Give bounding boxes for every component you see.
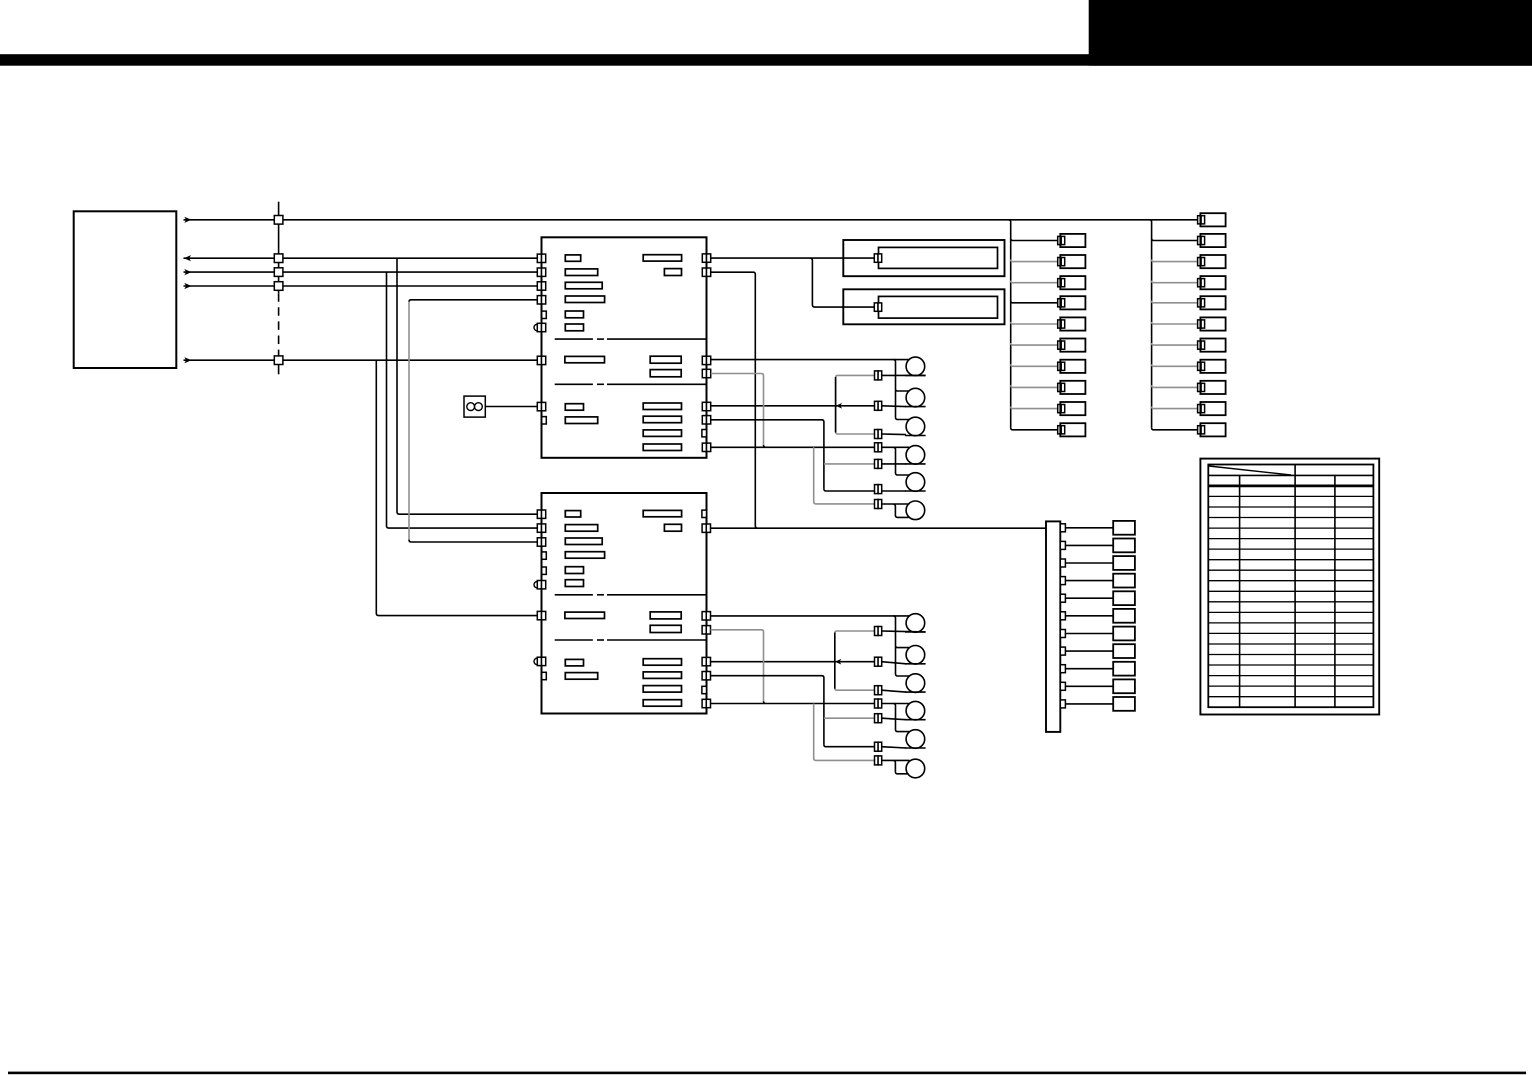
wire drop to SP12 feed (gray) (814, 704, 875, 761)
wire U2 to SP7 top (711, 615, 910, 617)
speaker SP5 base line (905, 490, 926, 492)
column B connector row 5 (1198, 320, 1205, 328)
column B box row 7 (1200, 360, 1225, 373)
bus A branch wire row 5 (1011, 322, 1058, 324)
column A connector row 6 (1058, 341, 1065, 349)
column A box row 5 (1060, 317, 1085, 330)
U2 left pin at y=542.0 (537, 538, 545, 546)
bus B branch wire row 1 (1152, 238, 1199, 240)
speaker SP12 (906, 759, 925, 778)
terminal box row 2 (1113, 539, 1135, 553)
column A box row 7 (1060, 360, 1085, 373)
bus B branch wire row 3 (1152, 281, 1199, 283)
bus B branch wire row 7 (1152, 364, 1199, 366)
U1 right inner pin (702, 430, 707, 437)
wire U2 gray drop to SP10 feed (711, 630, 764, 702)
column B connector row 8 (1198, 383, 1205, 391)
wire CN1 pin 4 to box (1065, 580, 1113, 582)
CN1 pin 5 (1060, 594, 1065, 602)
connector to speaker SP10 (875, 714, 882, 723)
wire U1 gray drop to SP4 feed (711, 374, 764, 446)
bus A branch wire row 4 (1011, 301, 1058, 303)
wire IC2 pin3 link (horizontal) (409, 540, 537, 542)
wire branch to SP10 base (gray) (824, 717, 875, 719)
U1 left pin at y=327.5 (537, 323, 545, 331)
wire antenna box to U1 (485, 406, 537, 408)
wire W3 branch to IC2 pin2 (387, 272, 538, 528)
column B connector row 3 (1198, 279, 1205, 287)
harness boundary line (dashed middle) (278, 293, 280, 350)
column B box row 2 (1200, 255, 1225, 268)
IC block U2 outline (542, 493, 707, 714)
parts table header thick line (1208, 484, 1373, 487)
wire V1 vertical black part (835, 377, 837, 433)
column B connector row 0 (1198, 216, 1205, 224)
wire CN1 pin 2 to box (1065, 544, 1113, 546)
U1 right pin at y=373.5 (702, 369, 710, 377)
U1 right pin at y=272.2 (702, 268, 710, 276)
wire V2 vertical black part (834, 633, 836, 689)
speaker SP6 (906, 501, 925, 520)
IC block U1 section divider 1 (555, 338, 706, 340)
wire U1 to D1 (711, 257, 875, 259)
speaker SP3 base line (905, 435, 926, 437)
column B connector row 2 (1198, 258, 1205, 266)
U2 left pin at y=615.6 (537, 611, 545, 619)
U2 right pin at y=615.8 (702, 612, 710, 620)
speaker SP2 (906, 388, 925, 407)
U1 right pin at y=258.1 (702, 254, 710, 262)
column A connector row 1 (1058, 236, 1065, 244)
wire IC1-IC2 link (gray vertical) (408, 302, 410, 541)
wire drop to SP6 feed (gray) (814, 447, 875, 504)
column B box row 9 (1200, 402, 1225, 415)
CN1 pin 8 (1060, 647, 1065, 655)
column B connector row 6 (1198, 341, 1205, 349)
speaker SP7 (906, 614, 925, 633)
IC block U1 outline (542, 237, 707, 457)
column B box row 6 (1200, 339, 1225, 352)
column A box row 1 (1060, 234, 1085, 247)
bus A branch wire row 9 (1011, 407, 1058, 409)
wire SP9 conn to base (882, 690, 906, 692)
speaker SP2 base line (905, 406, 926, 408)
wire SP3 conn to base (882, 433, 906, 436)
wire U1 to SP2 base (711, 405, 875, 407)
wire W5 branch to IC2 mid pin (376, 360, 537, 615)
wire SP5 conn to base (882, 490, 906, 492)
connector to speaker SP12 (875, 756, 882, 765)
column A connector row 10 (1058, 426, 1065, 434)
U1 left pin at y=360.4 (537, 356, 545, 364)
parts table column line 1 (1239, 475, 1241, 707)
connector on SP10 feed (875, 699, 882, 708)
speaker SP9 (906, 674, 925, 693)
wire W3 (184, 271, 538, 273)
column B connector row 10 (1198, 426, 1205, 434)
CN1 pin 10 (1060, 682, 1065, 690)
bus B branch wire row 10 (1152, 428, 1199, 430)
parts table outer frame (1200, 459, 1379, 715)
bus A branch wire row 3 (1011, 281, 1058, 283)
column A box row 2 (1060, 255, 1085, 268)
terminal box row 4 (1113, 574, 1135, 588)
arrow on wire W2 (184, 255, 191, 261)
U2 right pin at y=528.2 (702, 524, 710, 532)
terminal box row 9 (1113, 662, 1135, 676)
column B connector row 7 (1198, 362, 1205, 370)
column B box row 4 (1200, 296, 1225, 309)
column B box row 5 (1200, 317, 1225, 330)
wire SP7 conn to base (882, 630, 926, 633)
column B connector row 9 (1198, 405, 1205, 413)
feed bus SP10-SP11 (893, 704, 909, 732)
CN1 pin 6 (1060, 612, 1065, 620)
U2 right pin at y=629.8 (702, 626, 710, 634)
parts table inner frame (1208, 465, 1373, 708)
connector to speaker SP1 (875, 371, 882, 380)
connector on D1 (874, 254, 881, 262)
wire SP1 conn to base (882, 374, 926, 376)
wire SP11 conn to base (882, 747, 906, 748)
parts table header diagonal (1209, 466, 1291, 475)
parts table column line 3 (1334, 475, 1336, 707)
antenna box outline (464, 396, 485, 417)
black header band (0, 54, 1532, 65)
speaker SP4 base line (905, 463, 926, 465)
CN1 pin 2 (1060, 541, 1065, 549)
U2 left inner pin at y=676.0 (542, 672, 547, 679)
column B box row 1 (1200, 234, 1225, 247)
connector to speaker SP7 (875, 627, 882, 636)
connector to speaker SP4 (875, 459, 882, 468)
bus A branch wire row 7 (1011, 364, 1058, 366)
U1 left pin at y=258.3 (537, 254, 545, 262)
feed bus SP4-SP5 (893, 447, 909, 475)
wire SP12 feed and bracket (882, 760, 910, 773)
terminal box row 3 (1113, 556, 1135, 570)
speaker SP7 base line (905, 631, 926, 633)
display box D2 outer (843, 289, 1004, 324)
wire V2 distribution (SP7/SP9) (835, 631, 875, 690)
U1 left inner pin at y=314.8 (542, 311, 547, 318)
wire to SP5 base (824, 489, 875, 491)
connector strip CN1 (1046, 521, 1060, 732)
wire CN1 pin 3 to box (1065, 562, 1113, 564)
connector to speaker SP5 (875, 485, 882, 494)
speaker SP1 (906, 357, 925, 376)
connector to speaker SP8 (875, 657, 882, 666)
wire V1 distribution (SP1/SP3) (836, 375, 875, 434)
IC block U2 section divider 1 (555, 594, 706, 596)
speaker SP4 (906, 446, 925, 465)
bus B branch wire row 2 (1152, 260, 1199, 262)
bottom rule (8, 1072, 1526, 1075)
connector on SP4 feed (875, 443, 882, 452)
U2 right inner pin at y=690.0 (702, 686, 707, 693)
column A connector row 9 (1058, 405, 1065, 413)
parts table row lines (1208, 496, 1373, 696)
wire U1 drop to SP4/SP5 bases (711, 420, 824, 489)
IC block U1 section divider 2 (555, 383, 706, 385)
column A connector row 5 (1058, 320, 1065, 328)
connector to speaker SP11 (875, 742, 882, 751)
IC block U1 pin-name label boxes (565, 255, 682, 451)
wire U2 to SP8 base (711, 661, 875, 663)
wire CN1 pin 7 to box (1065, 633, 1113, 635)
parts table column line 2 (1294, 465, 1296, 708)
junction arrow on V2 (835, 659, 842, 665)
left box (main unit) (74, 211, 177, 368)
U2 right pin at y=703.5 (702, 699, 710, 707)
connector to speaker SP3 (875, 430, 882, 439)
wire U2 to SP10 feed line (711, 701, 910, 703)
column A box row 4 (1060, 296, 1085, 309)
U2 left pin at y=661.4 (537, 657, 545, 665)
column B connector row 1 (1198, 236, 1205, 244)
connector square on W1 (274, 216, 283, 225)
harness boundary line (solid bottom) (278, 351, 280, 375)
speaker SP10 base line (905, 719, 926, 721)
connector to speaker SP6 (875, 500, 882, 509)
column A box row 10 (1060, 423, 1085, 436)
display box D2 inner (879, 296, 998, 318)
U1 right pin at y=360.4 (702, 356, 710, 364)
wire SP8 conn to base (882, 662, 906, 664)
U2 right pin at y=661.6 (702, 657, 710, 665)
connector square on W3 (274, 268, 283, 277)
IC block U2 pin-name label boxes (565, 510, 682, 706)
bus B branch wire row 8 (1152, 385, 1199, 387)
bus A branch wire row 10 (1011, 428, 1058, 430)
antenna symbol circle b (475, 403, 483, 411)
column A connector row 7 (1058, 362, 1065, 370)
column A connector row 4 (1058, 299, 1065, 307)
speaker SP1 base line (905, 374, 926, 376)
bus B branch wire row 6 (1152, 343, 1199, 345)
wire CN1 pin 1 to box (1065, 527, 1113, 529)
U2 right inner pin at y=513.8 (702, 510, 707, 517)
wire SP2 conn to base (882, 405, 906, 408)
terminal box row 7 (1113, 627, 1135, 641)
U2 left inner pin at y=570.7 (542, 567, 547, 574)
U2 left pin at y=584.7 (537, 581, 545, 589)
IC block U2 section divider 2 (555, 639, 706, 641)
column B connector row 4 (1198, 299, 1205, 307)
U1 left inner pin at y=420.3 (542, 417, 547, 424)
speaker SP10 (906, 701, 925, 720)
wire branch D1 to D2 (810, 258, 874, 307)
wire CN1 pin 8 to box (1065, 650, 1113, 652)
U2 left pin bump a (534, 581, 537, 588)
wire CN1 pin 11 to box (1065, 703, 1113, 705)
connector on D2 (874, 303, 881, 311)
wire to SP11 base (824, 745, 875, 747)
wire W4 (184, 285, 538, 287)
speaker SP11 (906, 730, 925, 749)
bus B branch wire row 4 (1152, 301, 1199, 303)
wire SP6 feed and bracket (882, 504, 910, 517)
speaker SP8 (906, 646, 925, 665)
speaker SP3 (906, 417, 925, 436)
column B box row 10 (1200, 423, 1225, 436)
terminal box row 10 (1113, 679, 1135, 693)
column A box row 3 (1060, 276, 1085, 289)
antenna symbol circle a (467, 403, 475, 411)
wire branch to SP4 base (gray) (824, 463, 875, 465)
column A box row 6 (1060, 339, 1085, 352)
terminal box row 1 (1113, 521, 1135, 535)
bus B branch wire row 9 (1152, 407, 1199, 409)
terminal box row 5 (1113, 591, 1135, 605)
column B box row 3 (1200, 276, 1225, 289)
column A connector row 2 (1058, 258, 1065, 266)
CN1 pin 11 (1060, 700, 1065, 708)
connector square on W4 (274, 282, 283, 291)
terminal box row 6 (1113, 609, 1135, 623)
CN1 pin 9 (1060, 665, 1065, 673)
U2 left pin at y=514.2 (537, 510, 545, 518)
U1 left pin at y=406.6 (537, 402, 545, 410)
U1 left pin at y=286.0 (537, 282, 545, 290)
wire W2 branch to IC2 pin1 (397, 258, 537, 514)
wire W5 (184, 359, 538, 361)
wire U1 pin to vertical (711, 272, 756, 526)
U1 right pin at y=406.5 (702, 402, 710, 410)
speaker SP9 base line (905, 691, 926, 693)
arrow on wire W4 (184, 283, 191, 289)
wire U1 to SP1 top (711, 359, 910, 361)
column B box row 8 (1200, 381, 1225, 394)
wire CN1 pin 5 to box (1065, 597, 1113, 599)
wire CN1 pin 10 to box (1065, 685, 1113, 687)
junction arrow on V1 (836, 403, 843, 409)
black header title block (1089, 0, 1532, 66)
terminal box row 11 (1113, 697, 1135, 711)
wire W1 (top bus to accessory boxes) (184, 219, 1198, 221)
bus B branch wire row 5 (1152, 322, 1199, 324)
arrow on wire W1 (184, 217, 191, 223)
CN1 pin 7 (1060, 630, 1065, 638)
U1 right pin at y=447.3 (702, 443, 710, 451)
wire IC1 pin4 link (horizontal) (409, 300, 537, 302)
CN1 pin 4 (1060, 577, 1065, 585)
CN1 pin 3 (1060, 559, 1065, 567)
distribution bus B vertical (1150, 220, 1152, 428)
U2 left inner pin at y=555.6 (542, 552, 547, 559)
bus A branch wire row 2 (1011, 260, 1058, 262)
wire W2 (184, 257, 538, 259)
wire CN1 pin 6 to box (1065, 615, 1113, 617)
U1 left pin bump (534, 324, 537, 331)
U1 right pin at y=419.8 (702, 416, 710, 424)
column A connector row 3 (1058, 279, 1065, 287)
bus A branch wire row 6 (1011, 343, 1058, 345)
U2 left pin bump b (534, 658, 537, 665)
speaker SP11 base line (905, 747, 926, 749)
U1 left pin at y=272.2 (537, 268, 545, 276)
terminal box row 8 (1113, 644, 1135, 658)
parts table header row line (1208, 474, 1373, 476)
U2 left pin at y=528.1 (537, 524, 545, 532)
connector square on W5 (274, 356, 283, 365)
bus A branch wire row 8 (1011, 385, 1058, 387)
display box D1 outer (843, 240, 1004, 276)
wire CN1 pin 9 to box (1065, 668, 1113, 670)
arrow on wire W5 (184, 357, 191, 363)
connector to speaker SP9 (875, 686, 882, 695)
wire SP10 conn to base (882, 718, 906, 720)
wire U2 drop to SP10/SP11 bases (711, 676, 824, 745)
column A box row 8 (1060, 381, 1085, 394)
speaker SP5 (906, 473, 925, 492)
display box D1 inner (879, 247, 998, 268)
feed bus SP1-SP3 (893, 360, 909, 420)
feed bus SP7-SP9 (893, 616, 909, 676)
column A connector row 8 (1058, 383, 1065, 391)
speaker SP8 base line (905, 663, 926, 665)
column A box row 9 (1060, 402, 1085, 415)
connector to speaker SP2 (875, 401, 882, 410)
bus A branch wire row 1 (1011, 238, 1058, 240)
distribution bus A vertical (1009, 220, 1011, 428)
U2 right pin at y=675.7 (702, 672, 710, 680)
arrow on wire W3 (184, 269, 191, 275)
wire U1 to SP4 feed line (711, 445, 910, 447)
CN1 pin 1 (1060, 524, 1065, 532)
connector square on W2 (274, 254, 283, 263)
wire SP4 conn to base (882, 463, 906, 465)
harness boundary line (solid top) (278, 202, 280, 294)
wire U2 to connector strip (711, 526, 1047, 529)
U1 left pin at y=299.8 (537, 296, 545, 304)
column B box row 0 (1200, 213, 1225, 226)
